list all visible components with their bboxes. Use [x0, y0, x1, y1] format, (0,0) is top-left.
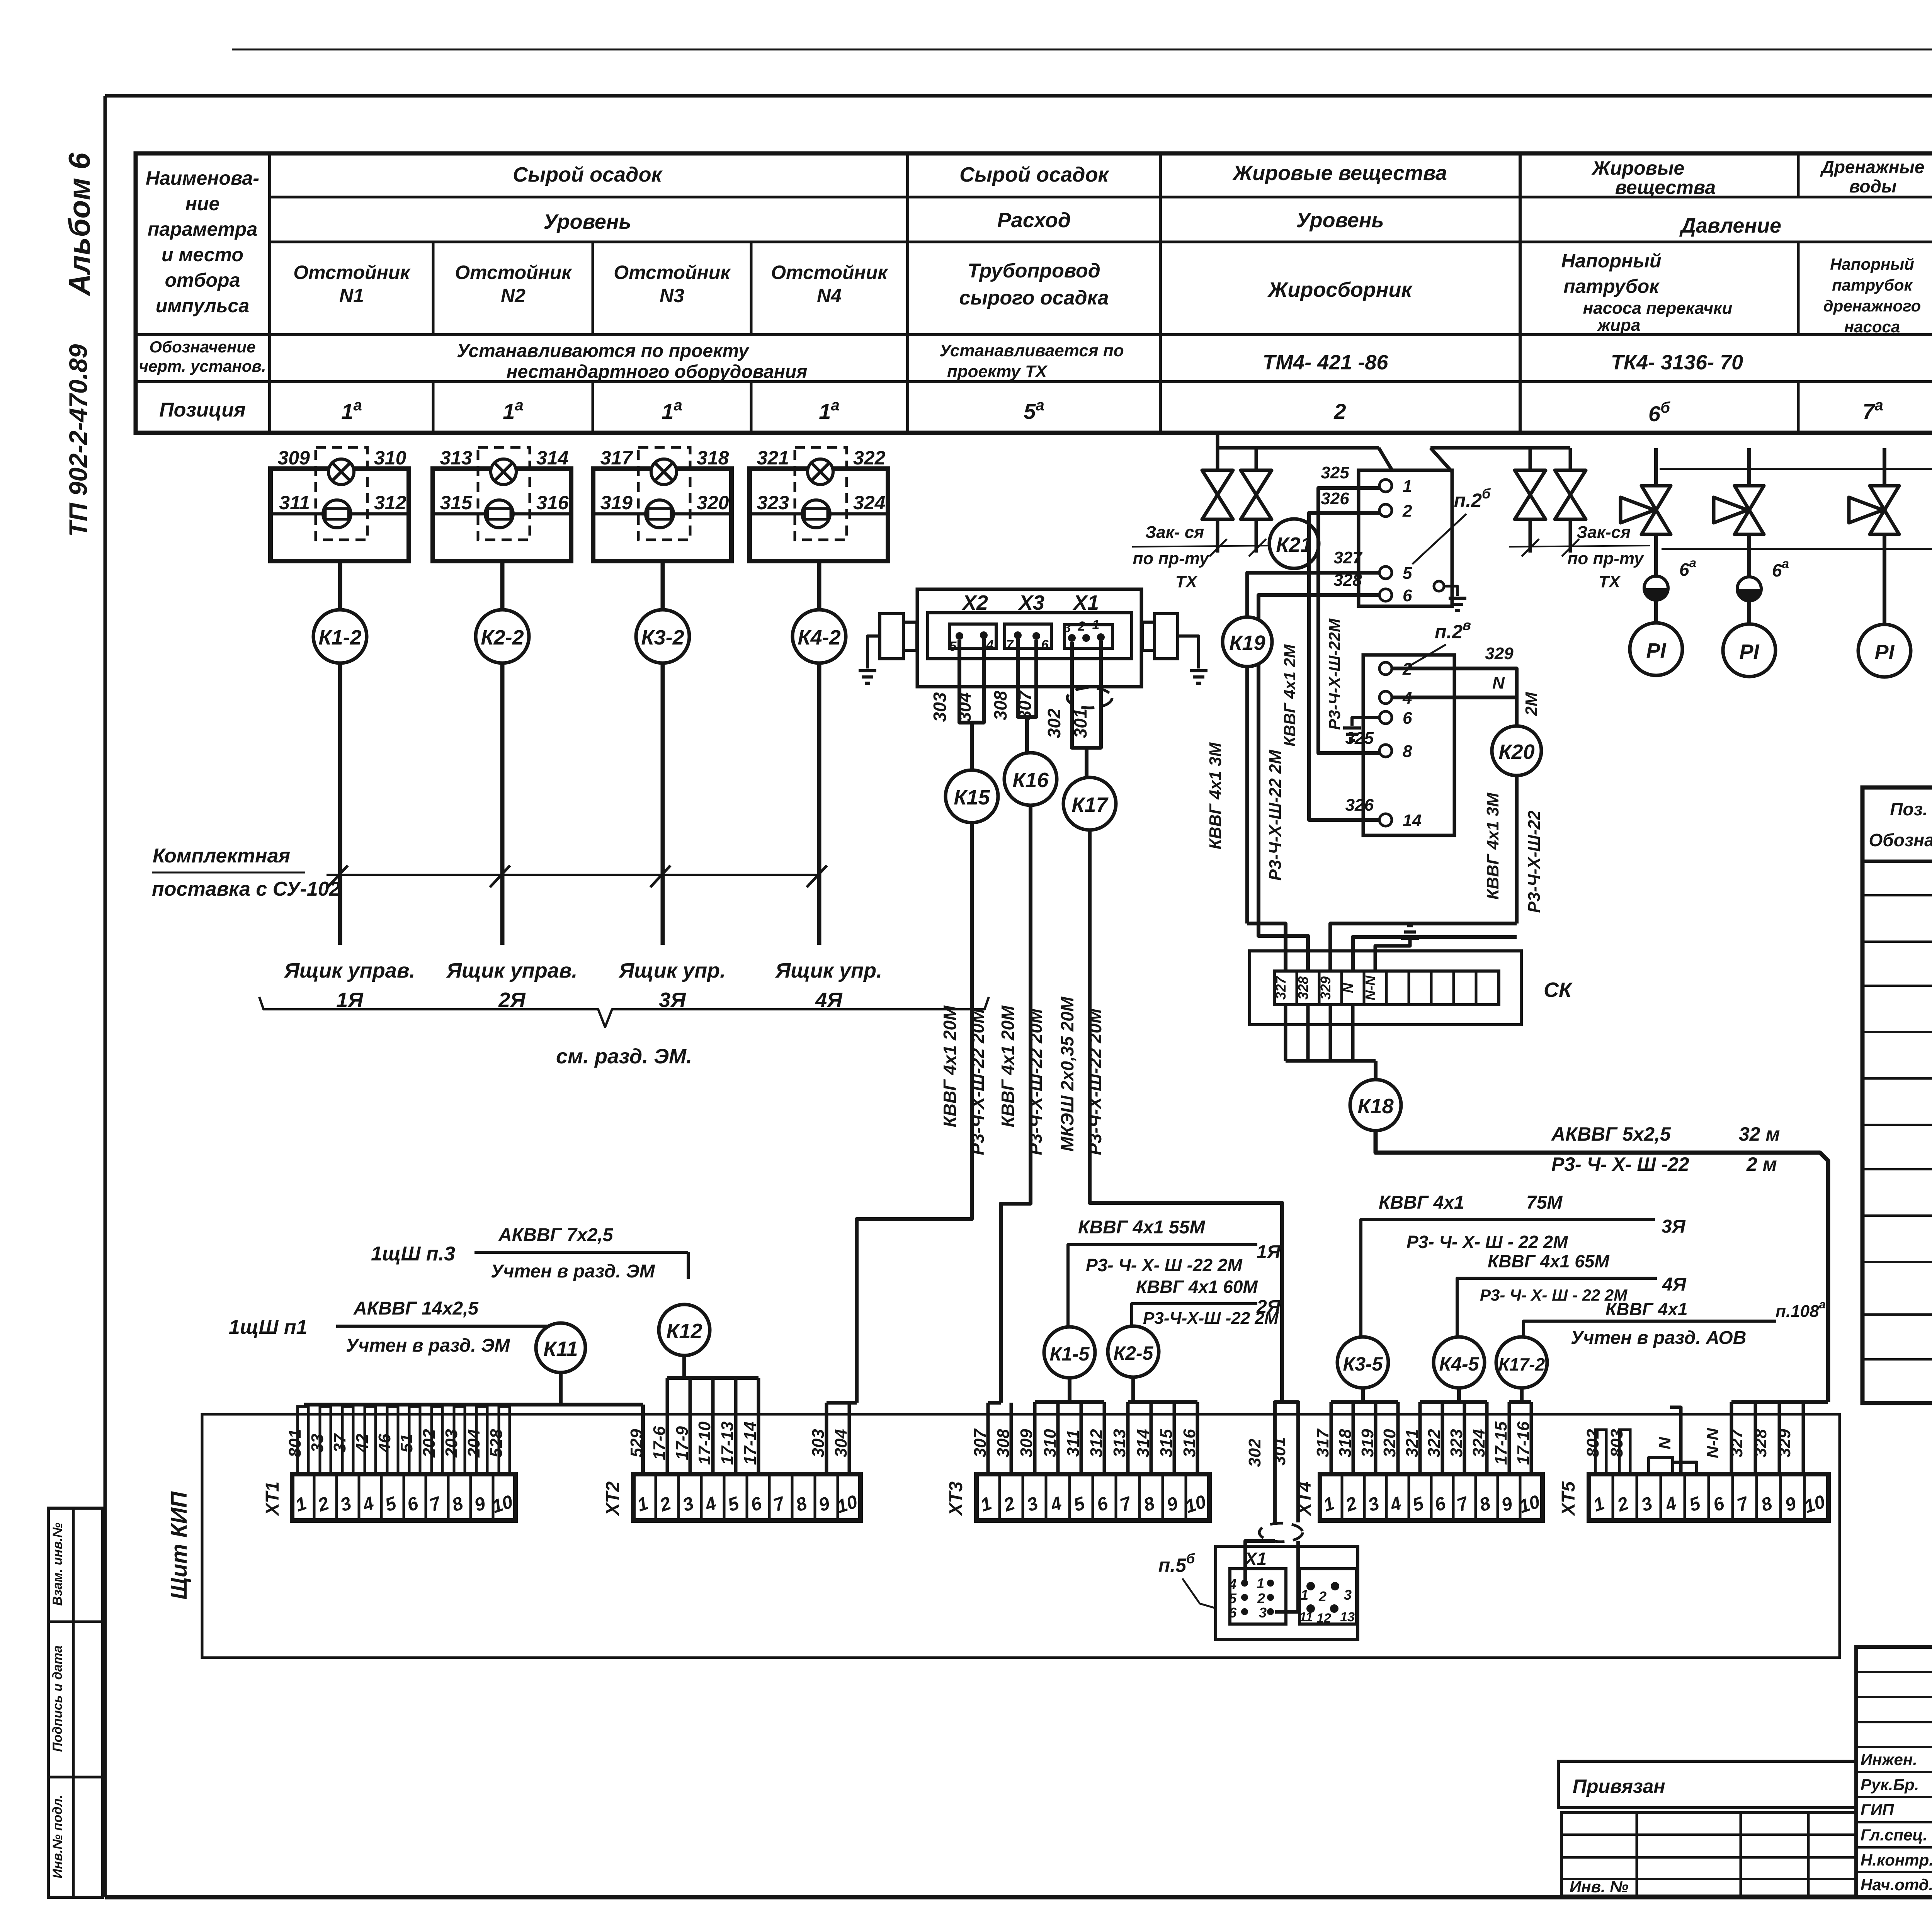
svg-text:Жировые вещества: Жировые вещества: [1232, 162, 1447, 185]
svg-text:313: 313: [440, 447, 473, 469]
cable bundle into XT5: [1731, 1400, 1828, 1404]
svg-text:204: 204: [464, 1429, 483, 1458]
svg-text:Отстойник: Отстойник: [614, 262, 731, 283]
pipe line 14M1: [1662, 548, 1932, 550]
svg-text:319: 319: [600, 492, 633, 514]
svg-text:328: 328: [1333, 571, 1362, 590]
svg-text:2 м: 2 м: [1746, 1153, 1777, 1175]
svg-text:316: 316: [1180, 1429, 1199, 1458]
wire from lamp unit 4: [817, 561, 821, 610]
svg-text:ТП 902-2-470.89: ТП 902-2-470.89: [64, 344, 92, 537]
svg-text:5: 5: [1229, 1590, 1237, 1606]
K15 pair into XT2 9,10: [827, 1401, 857, 1405]
box p.2b: [1359, 470, 1452, 606]
svg-text:насоса: насоса: [1844, 318, 1900, 336]
svg-text:К4-2: К4-2: [798, 626, 840, 649]
svg-text:Сырой осадок: Сырой осадок: [959, 163, 1109, 186]
svg-text:Устанавливается по: Устанавливается по: [939, 341, 1124, 360]
svg-text:Устанавливаются по проекту: Устанавливаются по проекту: [457, 341, 750, 361]
svg-text:N-N: N-N: [1362, 975, 1378, 1000]
svg-text:321: 321: [1403, 1429, 1422, 1457]
svg-text:сырого осадка: сырого осадка: [959, 287, 1109, 309]
wire 302 into X1 pin4: [1245, 1541, 1275, 1583]
connector box p.5b: [1216, 1546, 1358, 1639]
wire down to control box 2: [500, 663, 505, 945]
svg-text:328: 328: [1751, 1429, 1770, 1458]
svg-text:2М: 2М: [1522, 692, 1541, 716]
svg-text:ХТ4: ХТ4: [1294, 1481, 1315, 1517]
svg-text:по пр-ту: по пр-ту: [1133, 549, 1210, 568]
svg-text:КВВГ 4х1 65М: КВВГ 4х1 65М: [1488, 1251, 1610, 1271]
svg-text:303: 303: [930, 692, 950, 722]
svg-text:К3-5: К3-5: [1343, 1353, 1383, 1375]
svg-text:МКЭШ 2х0,35 20М: МКЭШ 2х0,35 20М: [1057, 996, 1077, 1151]
branch tick: [807, 866, 827, 887]
svg-text:Подпись и дата: Подпись и дата: [50, 1645, 65, 1752]
svg-text:17-14: 17-14: [741, 1422, 760, 1465]
signal lamp unit 1 box: [270, 469, 409, 561]
XT5 cell1-2 wire stubs: [1595, 1430, 1606, 1474]
wire pair 308/307: [1018, 639, 1036, 717]
parameter table frame: [136, 153, 1932, 433]
right cable gland: [1155, 614, 1178, 659]
svg-text:321: 321: [757, 447, 789, 469]
lamp HL2: [491, 459, 516, 485]
svg-text:Р3-Ч-Х-Ш-22 20М: Р3-Ч-Х-Ш-22 20М: [1026, 1008, 1046, 1155]
svg-text:ГИП: ГИП: [1861, 1801, 1894, 1819]
svg-text:1щШ п.3: 1щШ п.3: [371, 1243, 455, 1265]
svg-text:РI: РI: [1739, 640, 1759, 663]
ground: [859, 669, 876, 672]
svg-text:Напорный: Напорный: [1830, 255, 1914, 273]
drawing frame: [105, 94, 1932, 98]
dashed enclosure: [795, 447, 847, 540]
svg-text:13: 13: [1340, 1610, 1355, 1624]
svg-text:329: 329: [1775, 1429, 1794, 1458]
right valve pair bus: [1430, 448, 1452, 472]
connector assembly outer box: [917, 589, 1141, 687]
svg-text:К17: К17: [1071, 793, 1109, 816]
svg-text:К1-2: К1-2: [318, 626, 361, 649]
cable KVVG 4x1 65M: [1457, 1278, 1657, 1337]
svg-text:Позиция: Позиция: [159, 399, 245, 421]
svg-text:К21: К21: [1276, 533, 1312, 556]
shield ellipse: [1067, 688, 1112, 708]
svg-text:2: 2: [1318, 1588, 1327, 1604]
p.2v t6 ground: [1352, 718, 1379, 726]
K12 bus to XT2: [682, 1355, 686, 1378]
svg-text:Нач.отд.: Нач.отд.: [1861, 1876, 1932, 1894]
branch tick: [328, 866, 348, 887]
svg-text:327: 327: [1333, 548, 1363, 567]
connector X2 pins: [949, 624, 996, 648]
svg-text:по пр-ту: по пр-ту: [1568, 549, 1645, 568]
svg-text:2: 2: [1257, 1590, 1265, 1606]
svg-text:5: 5: [949, 639, 957, 654]
wire from lamp unit 1: [338, 561, 342, 610]
svg-text:Ящик управ.: Ящик управ.: [284, 959, 415, 982]
svg-text:14: 14: [1403, 811, 1422, 830]
svg-text:ние: ние: [185, 193, 220, 214]
svg-text:318: 318: [697, 447, 729, 469]
svg-text:3: 3: [1344, 1587, 1352, 1603]
p.2b ground terminal: [1434, 581, 1444, 591]
packaged supply bus line: [327, 874, 819, 876]
svg-text:3: 3: [1064, 621, 1071, 635]
svg-text:Отстойник: Отстойник: [771, 262, 888, 283]
svg-text:Альбом 6: Альбом 6: [62, 152, 96, 296]
svg-text:К11: К11: [543, 1337, 578, 1361]
svg-text:К1-5: К1-5: [1049, 1343, 1090, 1365]
svg-text:2: 2: [1333, 399, 1346, 423]
cable circle K11: [536, 1323, 585, 1372]
svg-text:патрубок: патрубок: [1563, 276, 1660, 297]
svg-text:Взам. инв.№: Взам. инв.№: [50, 1522, 65, 1605]
p.2b terminals 1 2 5 6: [1379, 480, 1392, 492]
terminal strip ХТ3: [976, 1474, 1209, 1520]
pipe line Truba 14x2 1M: [1660, 468, 1932, 470]
svg-text:ТХ: ТХ: [1175, 572, 1198, 591]
svg-text:327: 327: [1727, 1428, 1746, 1458]
svg-text:СК: СК: [1544, 978, 1573, 1002]
cock 14M1 #1: [1654, 448, 1658, 486]
lamp test element 2: [485, 500, 513, 528]
svg-text:К4-5: К4-5: [1439, 1353, 1479, 1375]
svg-text:17-13: 17-13: [718, 1422, 737, 1465]
svg-text:33: 33: [308, 1434, 327, 1453]
wire pair 303/304: [959, 639, 984, 723]
svg-text:Инжен.: Инжен.: [1861, 1750, 1917, 1769]
cable circle К4-2: [793, 610, 846, 663]
svg-text:302: 302: [1245, 1439, 1264, 1467]
svg-text:Р3- Ч- Х- Ш -22 2М: Р3- Ч- Х- Ш -22 2М: [1086, 1255, 1243, 1275]
svg-text:310: 310: [374, 447, 406, 469]
cock 14M1 #3: [1883, 448, 1886, 486]
svg-text:328: 328: [1295, 976, 1311, 1000]
svg-text:17-16: 17-16: [1514, 1421, 1533, 1465]
svg-text:АКВВГ 5х2,5: АКВВГ 5х2,5: [1551, 1123, 1671, 1145]
lamp HL3: [651, 459, 677, 485]
svg-text:17-15: 17-15: [1492, 1421, 1510, 1465]
wire down to control box 3: [661, 663, 665, 945]
svg-text:803: 803: [1607, 1429, 1626, 1457]
svg-text:Уровень: Уровень: [543, 210, 631, 233]
svg-text:Гл.спец.: Гл.спец.: [1861, 1826, 1927, 1844]
terminal strip ХТ4: [1320, 1474, 1543, 1520]
svg-text:Р3- Ч- Х- Ш - 22 2М: Р3- Ч- Х- Ш - 22 2М: [1406, 1232, 1568, 1252]
svg-text:Жировые: Жировые: [1591, 157, 1685, 179]
svg-text:12: 12: [1316, 1611, 1331, 1626]
cable KVVG 4x1 uchten v AOB: [1524, 1321, 1776, 1337]
K17-2 bus to XT4: [1520, 1388, 1524, 1402]
svg-text:6: 6: [1229, 1605, 1237, 1621]
svg-text:309: 309: [278, 447, 310, 469]
svg-text:N-N: N-N: [1703, 1428, 1722, 1458]
svg-text:Х1: Х1: [1244, 1549, 1267, 1569]
svg-text:АКВВГ 7х2,5: АКВВГ 7х2,5: [498, 1225, 614, 1245]
svg-text:параметра: параметра: [148, 218, 257, 240]
branch tick: [650, 866, 670, 887]
svg-text:К16: К16: [1012, 769, 1049, 792]
svg-text:КВВГ 4х1 3М: КВВГ 4х1 3М: [1483, 792, 1502, 900]
title block outer: [1856, 1647, 1932, 1897]
svg-text:325: 325: [1321, 463, 1349, 482]
svg-text:АКВВГ 14х2,5: АКВВГ 14х2,5: [353, 1298, 479, 1319]
svg-text:319: 319: [1358, 1429, 1377, 1458]
svg-text:315: 315: [440, 492, 473, 514]
connector assembly inner box: [928, 613, 1132, 659]
svg-text:см. разд. ЭМ.: см. разд. ЭМ.: [556, 1045, 692, 1068]
svg-text:8: 8: [1403, 742, 1412, 761]
signal lamp unit 2 box: [433, 469, 571, 561]
svg-text:325: 325: [1345, 729, 1374, 748]
right ground wire: [1178, 636, 1199, 668]
svg-text:и место: и место: [162, 244, 243, 265]
svg-text:Ящик управ.: Ящик управ.: [446, 959, 578, 982]
svg-text:Поз.: Поз.: [1890, 799, 1927, 819]
svg-text:Дренажные: Дренажные: [1820, 157, 1925, 177]
svg-text:Напорный: Напорный: [1561, 250, 1662, 272]
svg-text:Рук.Бр.: Рук.Бр.: [1861, 1776, 1919, 1794]
svg-text:324: 324: [1469, 1429, 1488, 1457]
svg-text:322: 322: [1425, 1429, 1444, 1458]
svg-text:N: N: [1340, 983, 1356, 993]
terminal strip ХТ5: [1589, 1474, 1828, 1520]
svg-text:Отстойник: Отстойник: [455, 262, 572, 283]
svg-text:314: 314: [1134, 1429, 1153, 1457]
svg-text:1Я: 1Я: [1257, 1242, 1281, 1262]
svg-text:315: 315: [1157, 1429, 1176, 1458]
svg-text:323: 323: [1447, 1429, 1466, 1457]
svg-text:329: 329: [1318, 976, 1333, 1000]
K1-5 bus to XT3: [1068, 1378, 1071, 1402]
svg-text:отбора: отбора: [165, 269, 240, 291]
svg-text:ТМ4- 421 -86: ТМ4- 421 -86: [1263, 351, 1389, 374]
lamp test element 3: [646, 500, 673, 528]
cable circle K17: [1063, 777, 1116, 830]
N-N wire with ground: [1375, 940, 1410, 971]
svg-text:Учтен в разд. ЭМ: Учтен в разд. ЭМ: [491, 1261, 655, 1282]
svg-text:529: 529: [627, 1429, 646, 1458]
svg-text:вещества: вещества: [1615, 177, 1716, 198]
svg-text:3: 3: [1259, 1605, 1267, 1621]
svg-text:317: 317: [600, 447, 634, 469]
svg-text:309: 309: [1017, 1429, 1036, 1458]
svg-text:Зак- ся: Зак- ся: [1145, 523, 1204, 542]
cock 14M1 #2: [1747, 448, 1751, 486]
svg-text:КВВГ 4х1: КВВГ 4х1: [1379, 1192, 1464, 1213]
svg-text:311: 311: [1064, 1430, 1083, 1457]
wire down to control box 1: [338, 663, 342, 945]
XT5 jumper cells3-5: [1649, 1458, 1673, 1474]
svg-text:322: 322: [853, 447, 886, 469]
cabinet box Shchit KIP: [202, 1414, 1840, 1658]
svg-text:РI: РI: [1874, 641, 1895, 664]
svg-text:Х3: Х3: [1018, 591, 1044, 614]
svg-text:насоса перекачки: насоса перекачки: [1583, 299, 1733, 318]
svg-text:46: 46: [375, 1434, 394, 1453]
cable circle K15: [946, 770, 998, 823]
K11 bus to XT1 and XT2-1: [559, 1372, 563, 1405]
cable circle K20: [1492, 726, 1541, 776]
svg-text:202: 202: [420, 1429, 439, 1458]
dashed enclosure: [638, 447, 690, 540]
svg-text:ХТ5: ХТ5: [1558, 1481, 1579, 1517]
gauge loop seal 6a #1: [1654, 534, 1658, 576]
svg-text:1: 1: [1301, 1587, 1308, 1603]
svg-text:75М: 75М: [1526, 1192, 1563, 1213]
svg-text:К12: К12: [666, 1320, 702, 1343]
annex box Privyazan: [1558, 1761, 1856, 1808]
gauge loop seal 6a #2: [1747, 534, 1751, 577]
svg-text:Наименова-: Наименова-: [146, 167, 259, 189]
svg-text:дренажного: дренажного: [1823, 297, 1921, 315]
svg-text:Трубопровод: Трубопровод: [968, 260, 1100, 282]
svg-text:51: 51: [397, 1434, 416, 1453]
wire from lamp unit 3: [661, 561, 665, 610]
svg-text:ХТ3: ХТ3: [946, 1481, 966, 1517]
cable circle К1-2: [313, 610, 367, 663]
svg-text:301: 301: [1070, 709, 1090, 738]
svg-text:ТХ: ТХ: [1599, 572, 1621, 591]
svg-text:N: N: [1655, 1437, 1674, 1449]
svg-text:Давление: Давление: [1679, 214, 1781, 237]
svg-text:Р3-Ч-Х-Ш-22: Р3-Ч-Х-Ш-22: [1525, 810, 1544, 913]
svg-text:1: 1: [1403, 477, 1412, 496]
lamp test element 4: [802, 500, 830, 528]
svg-text:К2-5: К2-5: [1113, 1342, 1153, 1364]
svg-text:326: 326: [1345, 796, 1374, 815]
left cable gland: [880, 614, 903, 659]
svg-text:302: 302: [1044, 708, 1064, 738]
svg-text:Зак-ся: Зак-ся: [1577, 523, 1631, 542]
svg-text:К19: К19: [1229, 631, 1265, 655]
svg-text:проекту ТХ: проекту ТХ: [947, 362, 1048, 381]
svg-text:Инв. №: Инв. №: [1570, 1878, 1628, 1896]
svg-text:320: 320: [697, 492, 729, 514]
junction box CK: [1250, 951, 1521, 1025]
svg-text:802: 802: [1583, 1429, 1602, 1458]
svg-text:329: 329: [1485, 644, 1514, 663]
K16 cable run to XT3: [1001, 805, 1031, 1403]
sheet top thin line: [232, 49, 1932, 51]
svg-text:патрубок: патрубок: [1832, 276, 1913, 294]
lamp HL4: [808, 459, 833, 485]
K1-5 circle: [1044, 1327, 1095, 1378]
svg-text:2: 2: [1078, 619, 1085, 634]
svg-text:320: 320: [1380, 1429, 1399, 1458]
svg-text:4Я: 4Я: [1662, 1274, 1687, 1295]
svg-text:Учтен в разд. АОВ: Учтен в разд. АОВ: [1571, 1328, 1746, 1348]
svg-text:поставка с СУ-102: поставка с СУ-102: [152, 878, 340, 900]
K15 cable run to XT2: [857, 823, 972, 1403]
connector X3 pins: [1005, 624, 1051, 648]
svg-text:4: 4: [986, 638, 994, 652]
svg-text:жира: жира: [1597, 316, 1641, 335]
svg-text:17-6: 17-6: [650, 1426, 669, 1460]
cable KVVG 4x1 55M: [1068, 1245, 1257, 1327]
svg-text:N: N: [1492, 673, 1505, 692]
dashed enclosure: [478, 447, 530, 540]
K4-5 circle: [1434, 1337, 1485, 1388]
valve 2: [1241, 470, 1272, 519]
svg-text:6: 6: [1403, 586, 1412, 605]
cable KVVG 4x1 75M: [1361, 1219, 1655, 1337]
svg-text:3Я: 3Я: [1662, 1216, 1686, 1237]
svg-text:Инв.№ подл.: Инв.№ подл.: [50, 1795, 65, 1879]
svg-text:Отстойник: Отстойник: [293, 262, 411, 283]
left ground wire: [867, 636, 880, 668]
cable circle K16: [1004, 753, 1057, 805]
svg-text:Уровень: Уровень: [1296, 209, 1384, 232]
svg-text:317: 317: [1313, 1428, 1332, 1458]
svg-text:нестандартного оборудования: нестандартного оборудования: [507, 362, 808, 382]
pressure gauge PI #3: [1883, 534, 1886, 624]
svg-text:304: 304: [954, 692, 975, 722]
cable circle K19: [1223, 617, 1272, 667]
box p.2v: [1363, 655, 1454, 835]
svg-text:ХТ2: ХТ2: [603, 1481, 623, 1517]
svg-text:Привязан: Привязан: [1573, 1776, 1665, 1797]
XT5 N wire: [1670, 1407, 1681, 1474]
svg-text:301: 301: [1270, 1437, 1289, 1465]
svg-text:Щит КИП: Щит КИП: [167, 1491, 192, 1600]
svg-text:КВВГ 4х1: КВВГ 4х1: [1605, 1299, 1687, 1319]
svg-text:4: 4: [1228, 1576, 1236, 1592]
K3-5 circle: [1337, 1337, 1388, 1388]
svg-text:6: 6: [1041, 638, 1049, 652]
svg-text:327: 327: [1273, 976, 1289, 1000]
svg-text:Р3- Ч- Х- Ш -22: Р3- Ч- Х- Ш -22: [1551, 1153, 1689, 1175]
svg-text:Р3-Ч-Х-Ш-22 2М: Р3-Ч-Х-Ш-22 2М: [1266, 750, 1285, 881]
svg-text:Жиросборник: Жиросборник: [1267, 278, 1413, 301]
svg-text:311: 311: [279, 492, 310, 514]
svg-text:11: 11: [1299, 1610, 1313, 1624]
svg-text:313: 313: [1110, 1429, 1129, 1457]
terminal strip ХТ2: [633, 1474, 861, 1520]
K2-5 bus to XT3: [1131, 1377, 1135, 1402]
svg-text:42: 42: [353, 1434, 372, 1453]
svg-text:РI: РI: [1646, 639, 1666, 662]
svg-text:К20: К20: [1498, 740, 1534, 764]
svg-text:N2: N2: [501, 285, 526, 306]
svg-text:203: 203: [442, 1429, 461, 1458]
K3-5 bus to XT4: [1361, 1388, 1365, 1402]
pressure gauge PI #1: [1630, 623, 1682, 675]
svg-text:Учтен в разд. ЭМ: Учтен в разд. ЭМ: [346, 1335, 510, 1356]
svg-text:1щШ п1: 1щШ п1: [229, 1316, 308, 1338]
wire down to control box 4: [817, 663, 821, 945]
svg-text:КВВГ 4х1 60М: КВВГ 4х1 60М: [1136, 1277, 1258, 1297]
svg-text:КВВГ 4х1 3М: КВВГ 4х1 3М: [1206, 742, 1225, 849]
svg-text:326: 326: [1321, 489, 1349, 508]
svg-text:N1: N1: [339, 285, 364, 306]
svg-text:32 м: 32 м: [1739, 1123, 1780, 1145]
svg-text:ТК4- 3136- 70: ТК4- 3136- 70: [1611, 351, 1743, 374]
annex grid: [1561, 1813, 1856, 1896]
wires into CK: [1247, 923, 1286, 971]
wire pair 302/301 to connector box: [1275, 1402, 1298, 1522]
svg-text:Обознач.: Обознач.: [1869, 830, 1932, 850]
dashed enclosure: [316, 447, 367, 540]
wires below CK to K18: [1284, 1005, 1287, 1061]
branch tick: [490, 866, 510, 887]
svg-text:17-10: 17-10: [695, 1421, 714, 1465]
svg-text:К18: К18: [1357, 1095, 1393, 1118]
left inventory strip: [48, 1508, 103, 1897]
parts list table: [1862, 787, 1932, 1403]
left valve pair stems and bus: [1216, 435, 1219, 470]
